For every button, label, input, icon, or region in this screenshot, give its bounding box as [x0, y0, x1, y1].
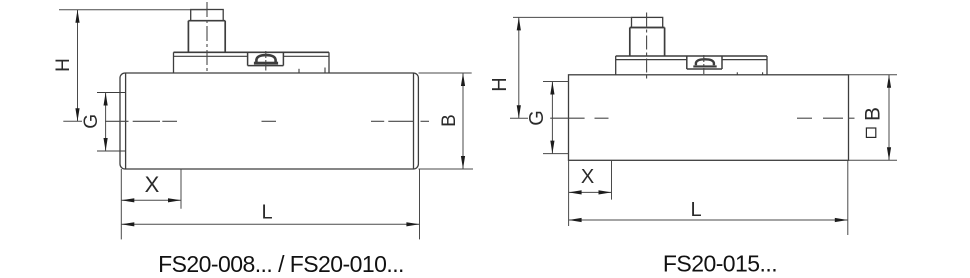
- svg-text:FS20-015...: FS20-015...: [663, 251, 777, 277]
- left tangent line: [125, 73, 127, 169]
- G arrow up: [550, 82, 554, 95]
- B extensions: [849, 74, 898, 76]
- L arrow right: [406, 222, 419, 226]
- B square symbol: [866, 128, 875, 137]
- plate ticks: [736, 72, 738, 75]
- labels left: [53, 58, 460, 223]
- H extension top: [513, 16, 632, 18]
- B arrow up: [461, 73, 465, 86]
- G arrow down: [550, 141, 554, 154]
- B arrow down: [461, 156, 465, 169]
- top plate: [616, 55, 767, 57]
- X arrow left: [121, 198, 134, 202]
- H arrow up: [517, 17, 521, 30]
- washer: [693, 65, 716, 67]
- H bottom tick: [63, 120, 82, 122]
- body rectangle: [569, 75, 849, 161]
- labels right: [489, 77, 885, 221]
- svg-text:H: H: [53, 58, 74, 72]
- L dim line: [121, 223, 419, 225]
- B extension lines: [419, 72, 472, 74]
- L arrow left: [569, 218, 582, 222]
- G dim line: [551, 82, 553, 154]
- B dim line: [462, 73, 464, 169]
- H dim line: [77, 10, 79, 122]
- screw pocket: [247, 52, 249, 65]
- H arrow down: [517, 105, 521, 118]
- X dim line: [121, 199, 181, 201]
- connector body: [629, 28, 631, 57]
- B dim line: [888, 75, 890, 161]
- L arrow right: [835, 218, 848, 222]
- G extensions: [543, 81, 569, 83]
- top plate: [174, 51, 330, 53]
- svg-text:X: X: [581, 166, 594, 188]
- screw pocket: [686, 56, 688, 69]
- X dim: [569, 191, 612, 193]
- screw vertical centerline: [703, 55, 705, 74]
- connector body: [187, 21, 189, 53]
- screw vertical centerline: [265, 51, 267, 71]
- right tangent line: [413, 73, 415, 169]
- G arrow down: [104, 138, 108, 151]
- svg-text:FS20-008... / FS20-010...: FS20-008... / FS20-010...: [158, 251, 404, 277]
- screw dome: [696, 59, 714, 65]
- L dim line: [569, 219, 848, 221]
- centerlines left: [105, 2, 429, 121]
- H extension top: [59, 9, 207, 11]
- L extensions: [568, 160, 570, 226]
- svg-text:G: G: [81, 114, 102, 129]
- dimensions right: [510, 17, 897, 235]
- connector vertical centerline: [646, 13, 648, 81]
- G arrow up: [104, 93, 108, 106]
- H bottom tick: [510, 117, 528, 119]
- H arrow up: [75, 10, 79, 23]
- H arrow down: [75, 108, 79, 121]
- X arrow left: [569, 190, 582, 194]
- arrows left: [75, 10, 465, 227]
- dimensions left: [59, 10, 473, 240]
- X arrow right: [599, 190, 612, 194]
- arrows right: [517, 17, 891, 222]
- B arrow up: [887, 75, 891, 88]
- svg-text:B: B: [439, 114, 460, 127]
- svg-text:B: B: [862, 107, 885, 121]
- washer: [254, 62, 278, 65]
- svg-text:H: H: [489, 77, 511, 91]
- svg-text:L: L: [261, 202, 272, 224]
- plate ticks: [298, 69, 300, 73]
- connector vertical centerline: [206, 2, 208, 74]
- centerlines right: [550, 13, 854, 119]
- connector cap: [632, 17, 663, 27]
- B arrow down: [887, 147, 891, 160]
- L arrow left: [121, 222, 134, 226]
- port hole lines: [97, 92, 126, 94]
- X arrow right: [168, 198, 181, 202]
- G dim line: [105, 93, 107, 152]
- pipe axis centerline: [105, 120, 129, 122]
- pipe axis centerline: [550, 117, 584, 119]
- X extension right: [180, 169, 182, 209]
- screw dome: [256, 55, 275, 62]
- svg-text:G: G: [526, 110, 548, 126]
- H dim line: [518, 17, 520, 118]
- svg-text:L: L: [690, 199, 701, 221]
- L extensions: [120, 169, 122, 239]
- body outline (rounded): [120, 73, 418, 169]
- connector cap: [191, 10, 224, 21]
- svg-text:X: X: [145, 172, 160, 197]
